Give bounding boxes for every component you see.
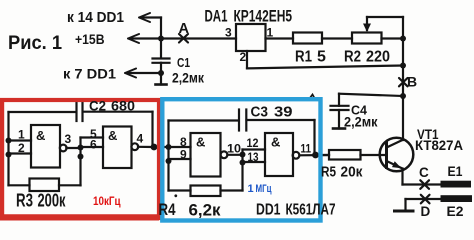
svg-text:200к: 200к	[38, 191, 67, 211]
svg-text:&: &	[271, 135, 280, 150]
svg-text:39: 39	[274, 105, 293, 121]
svg-text:9: 9	[180, 148, 187, 162]
svg-text:С2: С2	[89, 98, 106, 114]
svg-text:1: 1	[18, 128, 25, 142]
svg-text:2: 2	[18, 141, 25, 155]
svg-text:13: 13	[248, 150, 259, 164]
svg-text:6: 6	[90, 138, 97, 152]
svg-text:680: 680	[111, 98, 135, 114]
svg-text:10: 10	[227, 144, 241, 156]
svg-text:&: &	[36, 128, 45, 143]
svg-text:1: 1	[267, 26, 274, 40]
svg-text:к 14 DD1: к 14 DD1	[67, 10, 124, 26]
svg-text:R2: R2	[344, 49, 361, 66]
svg-text:+15В: +15В	[75, 31, 105, 47]
svg-text:6,2к: 6,2к	[189, 201, 221, 220]
svg-text:DA1: DA1	[205, 8, 228, 26]
svg-text:R4: R4	[159, 200, 176, 219]
svg-text:20к: 20к	[341, 165, 364, 181]
svg-text:R1: R1	[295, 49, 312, 66]
svg-text:2,2мк: 2,2мк	[344, 115, 378, 130]
svg-text:1: 1	[248, 183, 254, 195]
svg-text:R5: R5	[321, 165, 336, 181]
svg-text:220: 220	[366, 49, 390, 66]
svg-text:КТ827А: КТ827А	[415, 137, 463, 153]
svg-text:С: С	[419, 165, 429, 180]
svg-text:к 7 DD1: к 7 DD1	[63, 66, 116, 82]
svg-text:А: А	[179, 21, 190, 37]
svg-text:R3: R3	[16, 191, 33, 211]
svg-text:12: 12	[247, 136, 259, 150]
svg-text:D: D	[421, 204, 431, 219]
svg-text:10кГц: 10кГц	[93, 194, 121, 208]
svg-text:Рис. 1: Рис. 1	[8, 33, 62, 54]
svg-text:Е2: Е2	[447, 204, 464, 219]
svg-text:3: 3	[65, 132, 72, 146]
svg-text:К561ЛА7: К561ЛА7	[286, 202, 336, 219]
svg-text:&: &	[108, 128, 117, 143]
svg-text:2,2мк: 2,2мк	[172, 71, 204, 86]
svg-text:5: 5	[317, 49, 326, 66]
svg-text:2: 2	[240, 50, 247, 64]
svg-text:3: 3	[225, 26, 232, 40]
svg-text:КР142ЕН5: КР142ЕН5	[234, 8, 293, 26]
svg-text:&: &	[196, 135, 205, 150]
svg-text:С3: С3	[251, 105, 269, 121]
svg-text:11: 11	[301, 144, 312, 156]
svg-text:С1: С1	[177, 56, 190, 70]
svg-text:DD1: DD1	[256, 202, 281, 219]
svg-text:В: В	[407, 74, 417, 90]
svg-text:Е1: Е1	[448, 164, 463, 179]
svg-text:4: 4	[137, 132, 144, 146]
svg-text:МГц: МГц	[256, 183, 272, 195]
